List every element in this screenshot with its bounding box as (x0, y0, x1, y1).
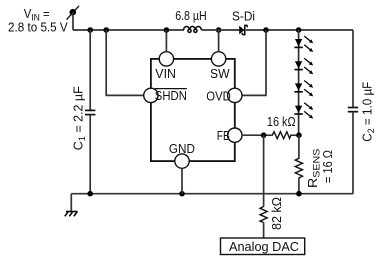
node VIN input terminal (67, 6, 80, 20)
IC U1 body (151, 59, 235, 161)
wire 82k bottom lead (263, 223, 265, 239)
junction dot GND pin bottom (179, 191, 185, 197)
wire top rail left (terminal to inductor) (73, 29, 184, 31)
LED D2 (294, 36, 313, 52)
inductor L 6.8 µH (184, 26, 202, 32)
label pin SHDN (155, 89, 187, 103)
svg-text:VIN: VIN (155, 67, 176, 81)
ground rail (71, 193, 353, 195)
svg-text:S-Di: S-Di (232, 10, 255, 24)
wire FB lead (242, 134, 267, 136)
wire top rail right (diode to C2 corner) (246, 29, 353, 31)
wire ground stub (70, 194, 72, 212)
junction dot VIN pin branch (164, 27, 170, 33)
resistor R1 16 kΩ (266, 132, 299, 139)
svg-text:Analog DAC: Analog DAC (229, 240, 299, 254)
junction dot SHDN branch (103, 27, 109, 33)
wire 82k top lead (FB node down, crossing ground rail) (263, 135, 265, 206)
junction dot OVD branch (263, 27, 269, 33)
junction dot FB node (261, 132, 267, 138)
wire GND pin stub (181, 168, 183, 193)
junction dot LED string top (296, 27, 302, 33)
wire VIN terminal vertical (72, 12, 74, 30)
LED D4 (294, 81, 313, 97)
svg-text:16 kΩ: 16 kΩ (267, 115, 296, 129)
wire RSENS bottom lead (298, 179, 300, 194)
svg-text:SHDN: SHDN (155, 89, 187, 103)
wire C1 bottom lead (89, 115, 91, 194)
pin SW (211, 52, 225, 66)
junction dot C1 branch (87, 27, 93, 33)
wire OVD branch (242, 30, 266, 95)
wire RSENS top lead (298, 135, 300, 157)
capacitor C1 (85, 110, 95, 114)
svg-text:6.8 µH: 6.8 µH (175, 9, 207, 23)
resistor R2 82 kΩ (260, 206, 267, 223)
LED D5 (294, 103, 313, 119)
pin VIN (159, 52, 173, 66)
svg-text:OVD: OVD (206, 90, 231, 104)
wire SW pin stub (218, 30, 220, 52)
label VIN = (24, 7, 50, 24)
junction dot RSENS bottom (296, 191, 302, 197)
pin SHDN (144, 88, 158, 102)
junction dot SW pin branch (216, 27, 222, 33)
svg-text:2.8 to 5.5 V: 2.8 to 5.5 V (8, 21, 68, 35)
pin GND (175, 154, 189, 168)
pin OVD (228, 88, 242, 102)
svg-text:= 16 Ω: = 16 Ω (321, 150, 335, 183)
svg-text:GND: GND (169, 142, 195, 156)
pin FB (228, 128, 242, 142)
svg-text:FB: FB (217, 129, 230, 143)
resistor RSENS (295, 157, 302, 179)
wire SHDN branch (106, 30, 143, 95)
wire LED string (298, 30, 300, 135)
junction dot sense node (296, 132, 302, 138)
svg-text:82 kΩ: 82 kΩ (270, 197, 284, 230)
wire C2 branch bottom (352, 112, 354, 194)
LED D3 (294, 58, 313, 74)
junction dot C1 bottom (87, 191, 93, 197)
box Analog DAC (221, 238, 305, 255)
diode D1 Schottky S-Di (239, 25, 247, 34)
ground symbol (65, 212, 78, 217)
wire C1 top lead (89, 30, 91, 110)
wire VIN pin stub (165, 30, 167, 52)
capacitor C2 (348, 108, 358, 112)
svg-text:SW: SW (210, 67, 230, 81)
wire C2 branch top (352, 30, 354, 108)
wire top rail mid (inductor to diode) (201, 29, 239, 31)
